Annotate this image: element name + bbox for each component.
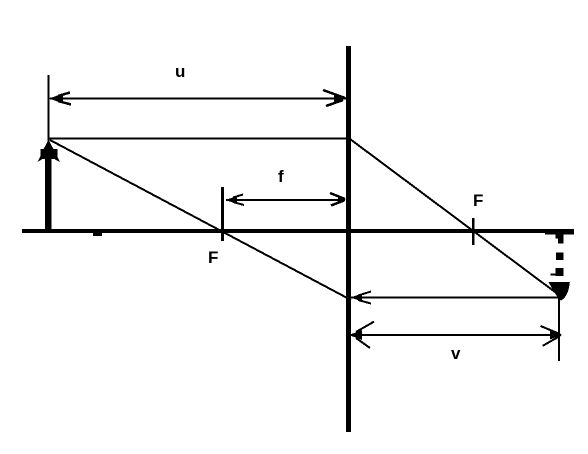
dimension line u — [50, 98, 346, 100]
svg-text:F: F — [473, 191, 483, 210]
u right arrowhead — [323, 90, 346, 106]
svg-text:v: v — [451, 344, 461, 363]
dimension line v — [350, 334, 561, 336]
ray: lens to image tip (refracted parallel ray) — [350, 297, 560, 299]
dimension line f — [226, 199, 345, 201]
object position tick — [48, 75, 50, 141]
lens plane — [346, 46, 351, 432]
svg-text:u: u — [175, 62, 185, 81]
u left arrowhead — [49, 93, 71, 105]
f right arrowhead — [330, 193, 346, 206]
optical axis — [22, 229, 574, 236]
v right arrowhead — [541, 326, 563, 346]
ray: object top to lens (parallel ray) — [49, 138, 348, 140]
image position tick — [558, 297, 560, 361]
ray: lens through right focal point to image tip — [350, 139, 561, 297]
v left arrowhead — [349, 322, 374, 348]
svg-text:F: F — [208, 248, 218, 267]
object arrow — [38, 140, 61, 232]
svg-text:f: f — [278, 167, 284, 186]
image dashed arrow — [549, 235, 570, 301]
arrowhead on refracted ray at lens — [350, 292, 371, 304]
right focal point tick — [472, 218, 475, 245]
f left arrowhead — [225, 195, 244, 206]
ray: object top through left focal point to lens — [50, 140, 351, 300]
left focal point tick — [221, 187, 224, 241]
